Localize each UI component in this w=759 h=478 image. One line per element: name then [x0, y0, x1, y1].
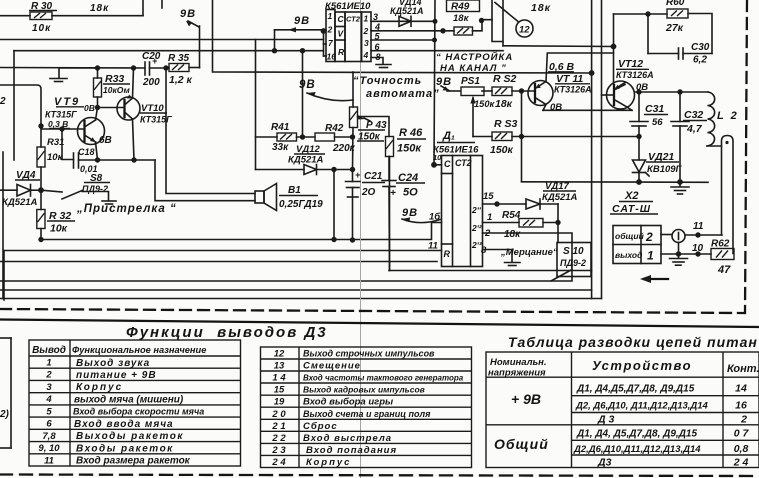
wire C32 stem [679, 92, 681, 122]
svg-text:R33: R33 [105, 73, 124, 85]
svg-text:2 4: 2 4 [733, 457, 749, 469]
svg-text:19: 19 [274, 397, 285, 408]
capacitor C30 [679, 42, 710, 66]
wire: vertical from second rail left [13, 51, 15, 160]
node J19 [433, 19, 438, 24]
wire: bus y298 [0, 298, 602, 300]
pin functions table right part [261, 347, 472, 468]
svg-text:12: 12 [519, 25, 530, 36]
wire R41 row [256, 136, 278, 138]
node 9В to D1 pin16 with curved arrow [402, 207, 440, 223]
node J27 [519, 88, 524, 93]
svg-text:VT12: VT12 [618, 58, 643, 70]
svg-text:150к: 150к [397, 143, 422, 155]
pin functions table left part [29, 340, 241, 466]
svg-text:2 3: 2 3 [271, 445, 286, 456]
wire VT9 collector [96, 108, 98, 121]
svg-text:R: R [338, 47, 345, 57]
svg-text:18к: 18к [495, 98, 513, 110]
wire: bus y270 from C24 [389, 270, 592, 272]
svg-text:13: 13 [274, 361, 285, 372]
svg-text:11: 11 [44, 455, 54, 466]
node J23 [431, 162, 437, 168]
svg-text:2: 2 [484, 228, 491, 239]
ground D2 pin8 [371, 58, 391, 68]
wire VT12 to L2 top [614, 85, 625, 91]
node J3 [163, 65, 168, 70]
wire speaker top [166, 68, 255, 194]
svg-text:+: + [355, 170, 361, 180]
svg-text:1: 1 [487, 212, 492, 223]
wire R43 bottom to C21 [352, 128, 355, 170]
node J10 [272, 48, 277, 53]
dashed border right [745, 0, 747, 313]
svg-text:Общий: Общий [494, 436, 549, 452]
fold crease line [360, 0, 362, 478]
node J16 [331, 237, 336, 242]
node J25 [611, 44, 617, 50]
svg-text:выход мяча (мишени): выход мяча (мишени) [74, 394, 184, 405]
svg-text:2O: 2O [361, 187, 376, 198]
resistor R49 [447, 0, 480, 35]
svg-text:0,25ГД19: 0,25ГД19 [279, 199, 323, 210]
svg-text:РS1: РS1 [461, 76, 480, 87]
node J1 [95, 65, 100, 70]
svg-text:Вход ввода мяча: Вход ввода мяча [74, 419, 174, 430]
svg-text:Вход частоты тактового генерат: Вход частоты тактового генератора [303, 373, 464, 382]
inductor L2 [707, 92, 739, 254]
resistor R62 [711, 239, 734, 277]
svg-text:L 2: L 2 [717, 110, 739, 122]
wire: bus y250 [4, 250, 442, 252]
resistor R60 [665, 0, 688, 34]
svg-text:Функциональное назначение: Функциональное назначение [72, 345, 206, 355]
svg-text:56: 56 [652, 117, 663, 128]
svg-text:18к: 18к [90, 3, 109, 14]
wire VD12 row [256, 169, 305, 171]
transistor VT12 [607, 58, 654, 110]
capacitor C20 [142, 51, 161, 88]
svg-text:2): 2) [0, 409, 10, 420]
svg-text:18к: 18к [504, 229, 521, 240]
svg-text:Выходы ракеток: Выходы ракеток [76, 431, 184, 442]
resistor R51 [461, 76, 496, 137]
resistor R30 [29, 1, 57, 34]
node J11 [321, 28, 327, 34]
svg-text:9В: 9В [299, 79, 316, 91]
svg-text:Выход счета и границ поля: Выход счета и границ поля [303, 409, 431, 419]
svg-text:2ʹ²: 2ʹ² [471, 223, 483, 233]
wire: left stub of bus y250 [3, 251, 5, 301]
wire corner x503 [502, 0, 504, 46]
wire vertical x516 down to 0V rail [521, 91, 523, 182]
node J5 [38, 123, 43, 128]
node J8 [38, 187, 44, 193]
node J2 [131, 65, 136, 70]
svg-text:R S2: R S2 [493, 73, 517, 85]
node J21 [432, 38, 437, 43]
node J18 [350, 237, 355, 242]
svg-text:1 4: 1 4 [272, 373, 286, 384]
svg-text:Таблица разводки цепей питан: Таблица разводки цепей питан [508, 334, 758, 350]
svg-text:C31: C31 [645, 103, 664, 115]
svg-text:1,2 к: 1,2 к [169, 74, 193, 86]
wire C24 stem [388, 157, 390, 181]
wire D1 C input [434, 164, 442, 166]
svg-text:R: R [444, 249, 451, 259]
node J17 [350, 167, 355, 172]
svg-text:X2: X2 [624, 190, 638, 202]
capacitor C21 [346, 170, 386, 198]
svg-text:R 46: R 46 [399, 127, 423, 139]
svg-text:КТ315Г: КТ315Г [140, 115, 172, 125]
svg-text:2: 2 [740, 414, 747, 426]
ground D1 pin8 [483, 250, 521, 266]
wire VT11 emitter to 0V row [543, 105, 546, 111]
svg-text:Корпус: Корпус [306, 457, 351, 468]
svg-text:27к: 27к [665, 22, 684, 34]
IC D2 К561ИЕ10 [325, 1, 371, 62]
svg-text:18к: 18к [531, 2, 551, 14]
wire C18 row to emitters and speaker [79, 159, 156, 161]
svg-text:R 32: R 32 [49, 210, 71, 222]
switch S10 [551, 243, 591, 282]
node J12 [300, 48, 305, 53]
svg-text:16: 16 [735, 400, 747, 412]
wire X2 pin1 row [661, 253, 711, 255]
wire R60 right down [688, 14, 712, 54]
svg-text:10к: 10к [47, 152, 64, 163]
svg-text:3: 3 [373, 12, 378, 22]
wire C18 left to base node [62, 129, 74, 160]
svg-text:“ НАСТРОЙКА: “ НАСТРОЙКА [436, 51, 513, 63]
wire R30 row [0, 15, 30, 17]
svg-text:напряжения: напряжения [488, 368, 546, 379]
node J22 [479, 18, 484, 23]
node J15 [331, 167, 336, 172]
dashed line bottom of page [0, 475, 759, 477]
svg-text:10кОм: 10кОм [103, 85, 130, 95]
svg-text:18к: 18к [453, 13, 470, 24]
svg-text:C: C [338, 14, 345, 24]
node 9В feed top-left [180, 8, 200, 68]
svg-text:0В: 0В [550, 102, 562, 113]
svg-text:СТ2: СТ2 [346, 15, 361, 24]
wire D2 pin5 [371, 39, 435, 41]
svg-text:15: 15 [483, 191, 494, 202]
node 9В at R51 [436, 76, 460, 91]
wire: long supply rail top [0, 39, 324, 41]
svg-text:C21: C21 [364, 171, 383, 182]
D2 left pin wiring [324, 31, 327, 57]
node J26 [589, 70, 595, 76]
wire D2 pin3 out with VD14 [371, 20, 435, 22]
svg-text:R 35: R 35 [168, 53, 190, 64]
svg-text:+ 9В: + 9В [511, 391, 541, 407]
svg-text:САТ-Ш: САТ-Ш [612, 203, 651, 215]
svg-text:3: 3 [364, 38, 369, 48]
svg-text:C32: C32 [684, 109, 703, 121]
svg-text:0В: 0В [84, 103, 95, 113]
node J14 [350, 134, 355, 139]
wire R33 stubs [97, 68, 99, 78]
wire D2 pin4 to R49 [371, 30, 454, 32]
svg-text:5O: 5O [403, 187, 418, 199]
node J37 [676, 251, 681, 256]
wire: double vertical buses right [591, 0, 593, 299]
wire C21 stem [352, 170, 354, 182]
svg-text:КТ3126А: КТ3126А [554, 85, 592, 95]
wire R42 right [335, 136, 353, 138]
wire R52 to VT11 base [512, 90, 535, 92]
node J33 [677, 179, 683, 185]
power wiring table [486, 352, 759, 468]
transistor VT9 [45, 96, 112, 146]
svg-text:10к: 10к [32, 23, 51, 34]
svg-text:Вход выстрела: Вход выстрела [303, 433, 392, 444]
svg-text:6: 6 [46, 419, 52, 430]
svg-text:7: 7 [328, 38, 334, 48]
transistor VT11 [528, 61, 592, 113]
svg-text:10: 10 [433, 153, 442, 162]
dashed border bottom of schematic [0, 309, 744, 313]
svg-text:9В: 9В [180, 8, 196, 20]
svg-text:ПД9-2: ПД9-2 [82, 184, 108, 194]
svg-text:2: 2 [0, 96, 6, 107]
diode VD14 [390, 0, 424, 26]
wire VT10 base [98, 107, 125, 109]
svg-text:8: 8 [376, 52, 381, 62]
wire VD12 node down to bus [333, 170, 335, 240]
svg-text:9В: 9В [402, 207, 418, 219]
0V rail right section [522, 181, 709, 184]
svg-text:33к: 33к [272, 142, 289, 153]
svg-text:9В: 9В [294, 15, 310, 27]
svg-text:Корпус: Корпус [76, 382, 123, 393]
svg-text:8: 8 [481, 245, 487, 256]
svg-text:C: C [444, 159, 451, 169]
svg-text:КВ109Г: КВ109Г [647, 164, 683, 175]
node J4 [95, 105, 100, 110]
svg-text:Д₁: Д₁ [442, 130, 455, 142]
svg-text:1: 1 [364, 14, 369, 24]
svg-text:2 2: 2 2 [271, 433, 286, 444]
svg-text:0,8: 0,8 [734, 443, 749, 455]
svg-text:4: 4 [363, 50, 369, 60]
wire: bus y290 [0, 289, 592, 291]
wire corner x492 [492, 0, 503, 42]
svg-text:Сброс: Сброс [303, 421, 338, 432]
svg-text:2 0: 2 0 [271, 409, 286, 420]
svg-text:R S3: R S3 [494, 118, 518, 130]
node J13 [300, 134, 305, 139]
wire VT10 emitter down [133, 119, 135, 160]
node J32 [636, 179, 642, 185]
svg-text:9, 10: 9, 10 [38, 443, 60, 454]
svg-text:общий: общий [615, 231, 645, 241]
svg-text:Входы ракеток: Входы ракеток [76, 443, 174, 454]
node J36 [695, 232, 700, 237]
wire to VT12 collector node [503, 45, 614, 48]
IC D1 К561ИЕ16 [433, 130, 483, 267]
svg-text:Вывод: Вывод [32, 345, 66, 356]
resistor R32 [37, 190, 75, 234]
wire VT10 collector up [133, 68, 134, 98]
capacitor C18 [74, 147, 98, 174]
svg-text:КД521А: КД521А [288, 155, 324, 166]
connector X2 [610, 190, 661, 264]
svg-text:КТ3126А: КТ3126А [616, 70, 654, 80]
svg-text:150к: 150к [474, 99, 496, 109]
svg-text:2 1: 2 1 [271, 421, 285, 432]
wire x558 vertical [557, 204, 559, 243]
svg-text:„Мерцание“: „Мерцание“ [500, 247, 558, 258]
svg-text:Конт.: Конт. [727, 363, 759, 375]
wire R31 bottom [40, 167, 42, 190]
node J6 [95, 157, 100, 162]
svg-text:150к: 150к [490, 144, 514, 156]
svg-text:В1: В1 [288, 185, 301, 196]
capacitor C31 [630, 103, 668, 128]
svg-text:КД521А: КД521А [390, 6, 424, 16]
svg-text:С18: С18 [78, 147, 95, 157]
node J28 [519, 134, 524, 139]
node J29 [636, 89, 641, 94]
svg-text:Выход кадровых импульсов: Выход кадровых импульсов [303, 385, 425, 395]
svg-text:Вход попадания: Вход попадания [306, 445, 397, 456]
resistor R35 [168, 53, 193, 86]
svg-text:9В: 9В [436, 76, 452, 88]
svg-text:2 4: 2 4 [271, 457, 286, 468]
resistor R31 [37, 137, 64, 167]
svg-text:16: 16 [327, 52, 337, 62]
node J24 [645, 11, 650, 16]
svg-text:2ʹʹ: 2ʹʹ [471, 205, 482, 215]
wire emitter rail y110 [543, 109, 632, 111]
svg-text:Д2,Д6,Д10,Д11,Д12,Д13,Д14: Д2,Д6,Д10,Д11,Д12,Д13,Д14 [573, 444, 701, 455]
diode VD4 [2, 170, 40, 208]
ground near R33 [50, 68, 97, 82]
svg-text:автомата”: автомата” [366, 88, 440, 100]
svg-text:7,8: 7,8 [42, 431, 56, 442]
svg-text:Д2, Д6,Д10, Д11,Д12,Д13,Д14: Д2, Д6,Д10, Д11,Д12,Д13,Д14 [575, 401, 709, 412]
svg-text:4: 4 [45, 394, 52, 405]
coax plug symbol [672, 230, 685, 243]
potentiometer R43 [350, 72, 388, 143]
wire R49 right up [473, 20, 493, 31]
wire vertical x255 from rail [255, 40, 257, 170]
svg-text:Номинальн.: Номинальн. [490, 357, 547, 368]
svg-text:Вход выбора скорости мяча: Вход выбора скорости мяча [73, 407, 204, 417]
D1 right pin 1 with R54 [483, 210, 559, 240]
svg-text:6В: 6В [99, 135, 112, 146]
wire VD4 row [0, 189, 17, 191]
svg-text:Вход выбора игры: Вход выбора игры [303, 397, 393, 408]
node J34 [494, 201, 499, 206]
svg-text:Устройство: Устройство [592, 358, 692, 373]
node J20 [440, 28, 445, 33]
wire VT12 collector up [613, 14, 615, 84]
svg-text:2: 2 [645, 230, 653, 244]
svg-text:R49: R49 [451, 2, 470, 13]
capacitor C24 [382, 172, 425, 199]
wire R60 C30 top row [614, 13, 668, 15]
wire VT9 emitter down [96, 142, 98, 160]
D1 right pin 15 with VD17 [483, 181, 578, 209]
svg-text:Выход строчных импульсов: Выход строчных импульсов [303, 349, 435, 359]
svg-text:1: 1 [328, 11, 333, 21]
node J38 [695, 251, 700, 256]
capacitor C32 [671, 109, 707, 135]
svg-text:КТ315Г: КТ315Г [45, 110, 77, 120]
svg-text:+: + [390, 188, 396, 199]
wire VT11 collector up and right [546, 53, 614, 82]
node J7 [131, 157, 136, 162]
node J31 [636, 134, 641, 139]
resistor R33 [94, 73, 131, 97]
svg-text:1: 1 [46, 358, 51, 369]
svg-text:0 7: 0 7 [734, 428, 750, 440]
transistor VT10 [117, 95, 172, 125]
svg-text:ПД9-2: ПД9-2 [560, 258, 586, 268]
wire coax to ground [670, 243, 688, 266]
wire C31 stem [638, 92, 640, 122]
svg-text:14: 14 [735, 383, 747, 395]
wire VT12 base from bus [602, 94, 615, 96]
resistor R52 [492, 73, 517, 110]
svg-text:Д1, Д4, Д5,Д7,Д8, Д9,Д15: Д1, Д4, Д5,Д7,Д8, Д9,Д15 [576, 429, 697, 440]
svg-text:10к: 10к [50, 223, 68, 235]
svg-text:Смещение: Смещение [303, 361, 361, 372]
svg-text:1: 1 [647, 249, 654, 263]
svg-text:КД521А: КД521А [2, 197, 38, 208]
wire: bus y281 to D1 pin2 [0, 233, 572, 281]
resistor R53 [490, 118, 518, 156]
varicap VD21 [633, 137, 683, 182]
wire R43 wiper row to R46 [358, 117, 390, 137]
wire speaker bottom [155, 160, 255, 201]
wire C30 row [648, 53, 679, 55]
svg-text:R54: R54 [502, 210, 521, 221]
svg-text:Д 3: Д 3 [597, 414, 615, 426]
svg-text:Вход размера ракеток: Вход размера ракеток [76, 456, 191, 467]
svg-text:выход: выход [615, 250, 642, 260]
switch S8 [41, 173, 116, 204]
svg-text:15: 15 [274, 385, 285, 396]
svg-text:S 10: S 10 [563, 246, 584, 257]
svg-text:питание + 9В: питание + 9В [76, 370, 157, 381]
svg-text:3: 3 [46, 382, 52, 393]
svg-text:C30: C30 [691, 42, 710, 53]
svg-text:11: 11 [693, 221, 704, 232]
wire C30 left vertical [647, 14, 649, 54]
svg-text:12: 12 [274, 349, 285, 360]
svg-text:0,3 В: 0,3 В [48, 119, 68, 129]
svg-text:C24: C24 [398, 172, 418, 184]
svg-text:2: 2 [327, 25, 333, 35]
svg-text:Д3: Д3 [597, 457, 612, 469]
wire R53 row [473, 136, 492, 138]
wire D2 pin6 [371, 50, 503, 52]
resistor R42 [315, 123, 356, 154]
wire: bus y240 [41, 223, 442, 240]
wire from left edge to R31 node [0, 85, 41, 147]
wire VT9 base [41, 128, 85, 130]
svg-text:47: 47 [717, 264, 731, 276]
wire: long vertical x436 [434, 0, 435, 165]
node 9В into D2 pin2 [275, 15, 324, 51]
ground on 0V rail [671, 182, 689, 194]
